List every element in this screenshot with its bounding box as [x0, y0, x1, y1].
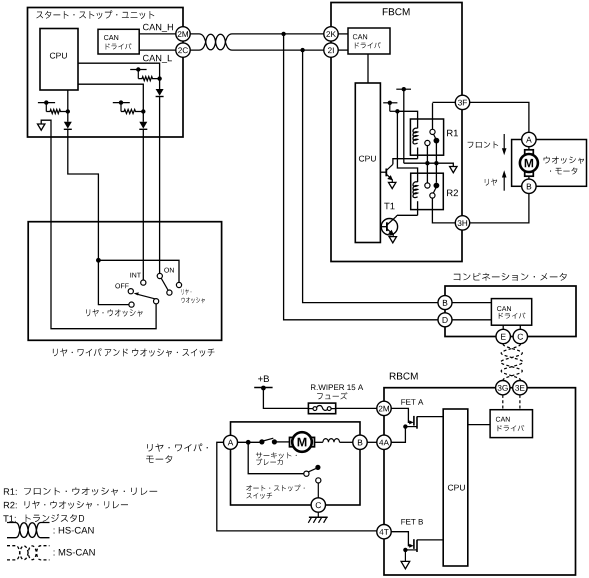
- FET B source: [405, 549, 417, 551]
- twisted pair HS-CAN bus: [190, 34, 324, 50]
- relay R1 common contact: [432, 103, 434, 129]
- relay R1 coil: [413, 128, 418, 144]
- CAN driver box (FBCM): [348, 28, 390, 54]
- pull cell stub 2: [38, 102, 55, 104]
- wire ground to switch arm: [41, 120, 156, 329]
- legend HS-CAN text: [54, 527, 94, 534]
- ground (FBCM relays): [450, 167, 457, 173]
- FBCM box: [331, 3, 462, 262]
- legend T1: [3, 515, 15, 521]
- label rear wiper motor: [147, 444, 208, 452]
- pin 3H: [455, 216, 469, 230]
- wire cell3 to switch INT contact: [142, 129, 144, 280]
- CAN driver box (meter): [491, 299, 531, 326]
- rear wiper motor box: [231, 422, 361, 505]
- wire R1 coil to transistor collector: [393, 159, 418, 165]
- wire bus to meter pin B: [303, 50, 438, 303]
- wire CAN_H to pin 2M: [139, 33, 176, 35]
- label combination meter: [454, 273, 567, 281]
- ON blade contact: [167, 290, 172, 295]
- wire 3F to washer motor A: [470, 102, 529, 132]
- pin 2M (RBCM): [377, 401, 391, 415]
- relay R1 box: [410, 119, 443, 155]
- relay R1 pivot: [434, 138, 440, 144]
- wire FET B source to ground: [404, 550, 406, 562]
- legend R1: [4, 488, 17, 494]
- FET A source: [405, 426, 417, 428]
- legend HS-CAN symbol: [7, 523, 50, 538]
- wire CAN driver to CPU: [367, 54, 369, 83]
- label FET A: [401, 399, 423, 405]
- relay R1 NC contact: [425, 140, 430, 145]
- ground (start-stop unit): [38, 124, 45, 130]
- legend R2: [4, 502, 17, 509]
- ground (T1): [389, 237, 396, 243]
- pin 3F: [433, 101, 457, 103]
- stub node 2 (FBCM): [383, 102, 397, 104]
- wire cell to switch ON contact: [159, 97, 161, 274]
- arrow rear (up): [503, 177, 505, 191]
- twisted pair MS-CAN (meter to RBCM): [501, 344, 523, 380]
- washer motor M symbol: [528, 147, 530, 179]
- label T1: [384, 203, 394, 210]
- node 3: [395, 109, 399, 113]
- dashed wire 3E to CAN driver: [519, 395, 521, 410]
- diode (CAN_L cell): [156, 89, 164, 96]
- resistor (CAN_L pull cell): [138, 77, 159, 81]
- pin 4A: [377, 435, 391, 449]
- pin 2I: [324, 43, 338, 57]
- label ON: [164, 268, 174, 273]
- wire breaker node to auto-stop switch: [248, 442, 304, 473]
- label FET B: [401, 519, 423, 525]
- wire R1 pivot rail: [435, 141, 437, 183]
- wire R2 coil to T1 collector: [397, 214, 418, 216]
- wire B to 4A: [367, 441, 377, 443]
- circuit breaker: [259, 439, 264, 444]
- pin C (meter): [513, 329, 527, 343]
- chassis ground below C: [317, 512, 319, 517]
- wire node to rear washer contact left: [98, 260, 128, 304]
- wire 2I to CAN driver: [338, 49, 348, 51]
- legend MS-CAN symbol: [7, 546, 50, 560]
- wire washer motor B to 3H: [470, 194, 529, 223]
- label RBCM: [390, 373, 418, 380]
- start-stop unit box: [28, 8, 184, 138]
- wire R2 contact to pin 3H: [432, 198, 455, 223]
- resistor (cell 3): [121, 109, 143, 113]
- wire auto-stop to C: [317, 483, 319, 498]
- wire +B to fuse: [263, 388, 308, 408]
- relay R1 blade: [434, 134, 437, 139]
- wire cell2 to switch junction: [68, 129, 99, 260]
- wire fuse to pin 2M: [336, 407, 377, 409]
- resistor (cell 2): [46, 109, 68, 113]
- wire bus to meter pin D: [284, 34, 438, 320]
- rear washer contact right: [176, 282, 181, 287]
- wire CPU to cell 3: [78, 84, 143, 122]
- pin 3E: [513, 381, 527, 395]
- diode (cell 2): [64, 122, 72, 129]
- ON contact: [157, 273, 162, 278]
- label CAN_L: [143, 55, 172, 63]
- dashed wire 3G to CAN driver: [502, 395, 504, 410]
- pin B (meter): [438, 296, 452, 310]
- FET A: [391, 408, 410, 422]
- wire node3 down to relay R2 coil: [397, 111, 417, 182]
- node washer feed: [96, 258, 101, 263]
- pin 2M: [176, 27, 190, 41]
- wire CAN driver to C: [519, 325, 521, 329]
- CAN driver box (RBCM): [490, 410, 532, 438]
- wire CAN driver to E: [502, 325, 504, 329]
- CPU box (FBCM): [355, 83, 380, 243]
- relay R2 coil: [413, 182, 418, 198]
- switch arm with arrow: [138, 294, 156, 299]
- wire CAN_L to pin 2C: [139, 49, 176, 51]
- pin 3G: [496, 381, 510, 395]
- arrow front (down): [503, 134, 505, 150]
- rear wiper and washer switch box: [28, 222, 221, 341]
- legend MS-CAN text: [54, 549, 95, 556]
- pull cell stub 3: [113, 102, 130, 104]
- pull cell stub (CAN_L): [130, 69, 146, 71]
- switch arm pivot: [154, 299, 159, 304]
- pin 2C: [176, 43, 190, 57]
- CPU box (start-stop unit): [40, 29, 78, 91]
- pin B (wiper motor): [353, 435, 367, 449]
- INT contact: [141, 280, 146, 285]
- ground (FET B): [401, 561, 410, 568]
- wiper motor M symbol: [290, 437, 295, 446]
- label rear washer (right): [182, 289, 192, 295]
- FET B drain to CPU: [417, 539, 443, 541]
- wire node3 to relay R1 coil: [397, 111, 417, 128]
- battery +B terminal: [258, 376, 269, 383]
- stub node 1 (FBCM): [396, 88, 411, 90]
- relay R2 blade: [433, 188, 436, 193]
- inductor (wiper motor): [323, 439, 340, 443]
- label switch box: [53, 348, 215, 357]
- washer motor box: [512, 140, 587, 187]
- wire node to rear washer contact right: [98, 260, 179, 282]
- wire CPU to CAN_L pull cell: [78, 63, 160, 78]
- label washer motor: [544, 156, 584, 164]
- auto-stop switch: [304, 471, 309, 476]
- wire R1 contact rail left: [426, 146, 428, 183]
- ground (upper transistor): [389, 182, 396, 188]
- relay R2 pivot: [434, 183, 440, 189]
- pin C (wiper motor): [311, 498, 325, 512]
- combination meter box: [445, 286, 576, 337]
- pin 4T: [377, 525, 391, 539]
- diode (cell 3): [139, 122, 147, 129]
- wire inductor to B: [340, 441, 353, 443]
- label front direction: [468, 141, 499, 148]
- label CAN_H: [143, 24, 173, 32]
- relay R2 box: [411, 173, 444, 209]
- relay R2 common contact: [430, 193, 435, 198]
- wire A to 4T rail: [217, 442, 377, 531]
- CPU box (RBCM): [443, 409, 468, 566]
- label INT: [130, 273, 141, 278]
- pin A (wiper motor): [224, 435, 238, 449]
- wire B to CAN driver: [452, 302, 491, 304]
- label start-stop unit title: [36, 10, 154, 19]
- label OFF: [115, 283, 128, 288]
- label auto-stop switch: [246, 485, 304, 492]
- label fuse R.WIPER 15 A: [311, 385, 363, 391]
- wire A to circuit breaker: [238, 441, 262, 443]
- pin A (washer motor): [522, 132, 536, 146]
- label circuit breaker: [256, 452, 297, 458]
- relay R2 NC contact: [425, 183, 430, 188]
- label R1: [447, 130, 458, 137]
- FET A drain to CPU: [417, 416, 443, 418]
- switch blade ON: [161, 278, 168, 290]
- FET B: [391, 532, 410, 546]
- wire to diode: [159, 79, 161, 89]
- label FBCM: [383, 8, 410, 15]
- transistor T1: [381, 219, 397, 235]
- rear washer contact left: [129, 302, 134, 307]
- wire 4A to FET A source: [391, 427, 405, 443]
- RBCM box: [384, 388, 576, 575]
- node on CAN_L bus: [300, 48, 304, 52]
- wire D to CAN driver: [452, 319, 491, 321]
- label R2: [447, 190, 458, 197]
- pin B (washer motor): [522, 179, 536, 193]
- wire breaker to motor: [274, 441, 289, 443]
- label rear direction: [485, 179, 497, 186]
- wire CPU to CAN driver (RBCM): [468, 424, 490, 426]
- wire 2K to CAN driver: [338, 33, 348, 35]
- fuse R.WIPER 15A: [308, 403, 335, 414]
- OFF contact: [128, 289, 133, 294]
- CAN driver box (start-stop unit): [98, 29, 139, 54]
- pin D (meter): [438, 313, 452, 327]
- wire CPU bottom to cell 2: [67, 90, 69, 122]
- pin 2K: [324, 27, 338, 41]
- node on CAN_H bus: [281, 32, 285, 36]
- transistor (FBCM upper): [380, 171, 386, 173]
- label rear washer (left): [86, 309, 143, 317]
- wire node1 to relay contacts rail: [403, 89, 405, 163]
- pin E (meter): [496, 329, 510, 343]
- wire contact rail to ground: [404, 163, 454, 166]
- wire motor to inductor: [315, 441, 323, 443]
